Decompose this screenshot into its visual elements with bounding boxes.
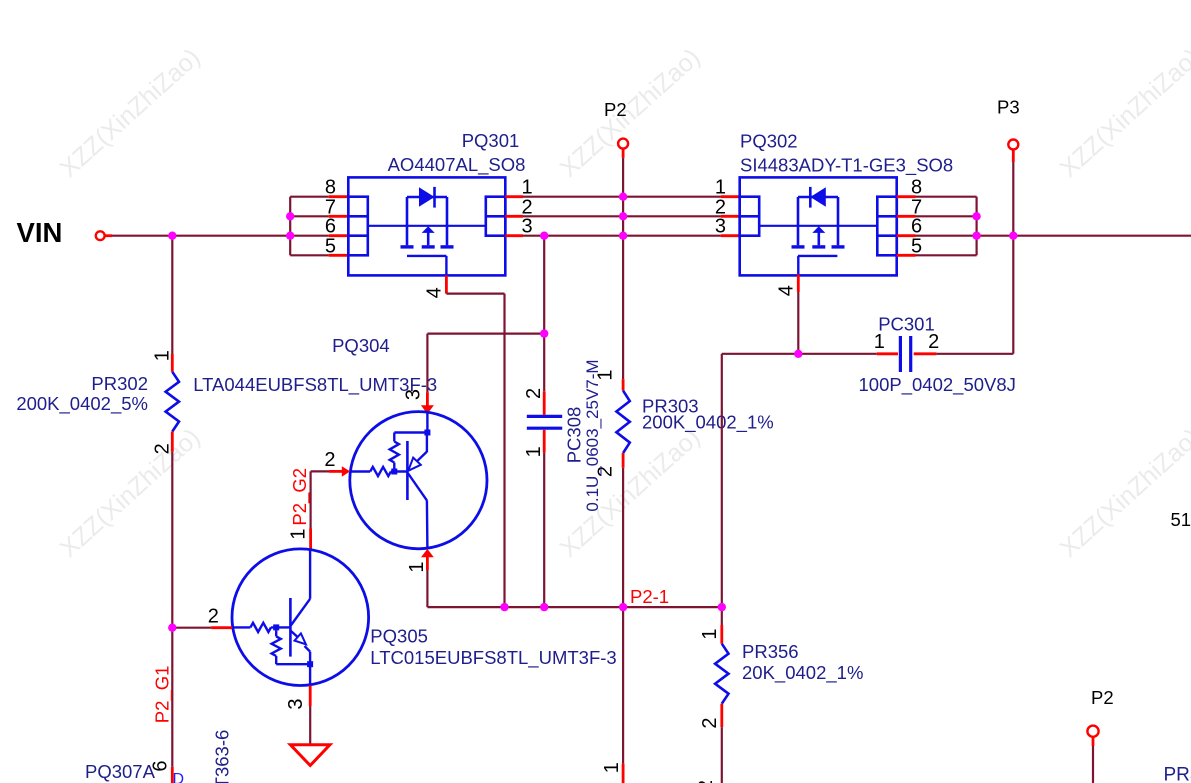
port P2 top (618, 139, 628, 149)
pin stub PQ305 pin3 (309, 686, 312, 707)
svg-text:5: 5 (911, 235, 922, 257)
pin stub PC308 pin2 (543, 391, 546, 415)
wire PQ301 pin2 to PQ302 (523, 215, 721, 217)
wire PQ302 pin4 drop (797, 292, 799, 354)
svg-text:XZZ(XinZhiZao): XZZ(XinZhiZao) (1055, 43, 1191, 183)
svg-text:PC308: PC308 (564, 407, 585, 464)
svg-text:PQ301: PQ301 (462, 130, 520, 151)
resistor PR356 (715, 644, 728, 704)
pin stub PQ302 pin 7 (897, 215, 916, 218)
pin stub PQ302 pin 1 (721, 195, 740, 198)
junction at 290.2,216.3 (286, 212, 294, 220)
svg-text:4: 4 (424, 287, 446, 298)
svg-text:P2_G2: P2_G2 (289, 468, 311, 526)
junction at 290.2,235.7 (286, 232, 294, 240)
svg-text:1: 1 (601, 762, 623, 773)
svg-text:0.1U_0603_25V7-M: 0.1U_0603_25V7-M (583, 359, 602, 511)
svg-text:P3: P3 (997, 96, 1020, 117)
wire rail PC301 right (936, 353, 1013, 355)
svg-text:PR356: PR356 (742, 641, 799, 662)
junction at 623.1,607.1 (619, 603, 627, 611)
pin stub PQ305 pin2 (211, 626, 232, 629)
wire PQ301 pin4 horizontal (446, 293, 504, 295)
junction at 798.3,353.8 (794, 350, 802, 358)
svg-text:20K_0402_1%: 20K_0402_1% (742, 662, 863, 684)
pin stub PC301 pin1 (877, 352, 898, 355)
svg-text:PQ305: PQ305 (370, 626, 428, 647)
transistor PQ301 AO4407AL_SO8 body (348, 177, 505, 275)
svg-text:VIN: VIN (17, 217, 63, 248)
svg-text:P2-1: P2-1 (630, 586, 669, 607)
junction at 623.1,235.7 (619, 232, 627, 240)
junction at 504.5,607.1 (500, 603, 508, 611)
wire P2 bottom drop (1092, 746, 1094, 783)
wire PQ301 pin5 row (290, 254, 329, 256)
pin stub PQ301 pin 6 (329, 234, 349, 237)
pin stub PQ301 pin 8 (329, 195, 349, 198)
svg-text:1: 1 (523, 446, 545, 457)
pin stub PQ302 pin 2 (721, 215, 740, 218)
wire PQ304 pin2 corner horiz (311, 470, 329, 472)
wire rail PC301 left (722, 353, 877, 355)
wire left rail lower (171, 452, 173, 767)
pin stub PQ301 pin 4 (445, 275, 448, 293)
wire P2_G2 vertical (310, 471, 312, 528)
svg-text:2: 2 (928, 331, 939, 353)
svg-text:5: 5 (325, 235, 336, 257)
svg-text:P2: P2 (1091, 687, 1114, 708)
junction at 172.3,235.7 (168, 232, 176, 240)
transistor PQ302 SI4483ADY body (740, 177, 897, 275)
pin stub PQ302 pin 5 (897, 254, 916, 257)
svg-text:1: 1 (288, 528, 310, 539)
wire PQ302 pin7 row (916, 215, 977, 217)
pin stub PR303 pin1 (622, 379, 625, 391)
svg-text:2: 2 (208, 606, 219, 628)
svg-text:PR302: PR302 (91, 373, 148, 394)
pin stub PQ304 pin1 (426, 556, 429, 570)
wire left rail upper (171, 236, 173, 354)
wire PQ301 pin8 row (290, 196, 329, 198)
wire PQ301 pin4 vertical drop (503, 294, 505, 607)
svg-text:AO4407AL_SO8: AO4407AL_SO8 (388, 154, 526, 176)
pin stub PR303 pin2 (622, 453, 625, 468)
pin stub PQ304 pin3 (426, 392, 429, 406)
pin stub VIN port (105, 234, 112, 237)
svg-text:LTA044EUBFS8TL_UMT3F-3: LTA044EUBFS8TL_UMT3F-3 (193, 374, 437, 396)
wire P2 vertical upper (622, 158, 624, 379)
wire PR356 down exit (721, 727, 723, 783)
port VIN (96, 231, 105, 240)
svg-text:200K_0402_5%: 200K_0402_5% (16, 393, 148, 415)
pin stub PQ301 pin 5 (329, 254, 349, 257)
svg-text:1: 1 (152, 350, 174, 361)
wire PQ302 right bracket vertical (975, 197, 977, 256)
junction at 1013.3,235.7 (1009, 232, 1017, 240)
svg-text:PC301: PC301 (878, 313, 935, 334)
wire PQ304 pin1 drop (426, 570, 428, 607)
wire PQ301 pin1 to PQ302 (523, 196, 721, 198)
svg-text:PQ302: PQ302 (740, 131, 798, 152)
arrow into PQ304 pin3 (421, 405, 434, 414)
junction at 623.1,216.3 (619, 212, 627, 220)
pin stub PR302 pin1 (171, 354, 174, 372)
pin stub PQ301 pin 1 (505, 195, 523, 198)
wire PQ301 left bracket vertical (289, 197, 291, 256)
pin stub PQ301 pin 2 (505, 215, 523, 218)
junction at 544.2,333.6 (540, 329, 548, 337)
wire P3 vertical (1012, 162, 1014, 354)
svg-text:3: 3 (285, 698, 307, 709)
pin stub PQ301 pin 3 (505, 234, 523, 237)
pin stub PQ302 pin 6 (897, 234, 916, 237)
pin stub PQ304 pin2 (329, 470, 343, 473)
capacitor PC308 (527, 415, 562, 418)
svg-text:XZZ(XinZhiZao): XZZ(XinZhiZao) (55, 43, 206, 183)
arrow into PQ304 pin2 (342, 466, 350, 477)
svg-text:100P_0402_50V8J: 100P_0402_50V8J (859, 374, 1016, 396)
wire P2-1 down (622, 607, 624, 764)
svg-text:2: 2 (324, 449, 335, 471)
svg-text:200K_0402_1%: 200K_0402_1% (642, 411, 774, 433)
port P3 (1008, 140, 1018, 150)
junction at 976.6,216.3 (972, 212, 980, 220)
svg-text:SI4483ADY-T1-GE3_SO8: SI4483ADY-T1-GE3_SO8 (740, 155, 953, 177)
resistor PR302 (166, 372, 179, 432)
pin stub PR356 pin2 (720, 704, 723, 728)
wire PQ305 pin2 horiz (172, 627, 211, 629)
port P2 bottom (1087, 726, 1098, 737)
svg-text:2: 2 (523, 388, 545, 399)
wire PQ305 pin3 to ground (309, 706, 311, 745)
pin stub PC308 pin1 (543, 430, 546, 453)
pin stub PQ305 pin1 (309, 529, 312, 550)
junction at 544.2,235.7 (540, 232, 548, 240)
junction at 721.8,607.1 (718, 603, 726, 611)
svg-text:D: D (173, 771, 185, 783)
wire PC308 lower drop (543, 452, 545, 607)
svg-text:P2_G1: P2_G1 (152, 666, 174, 724)
svg-text:PQ304: PQ304 (332, 335, 390, 356)
svg-text:4: 4 (776, 285, 798, 296)
svg-text:LTC015EUBFS8TL_UMT3F-3: LTC015EUBFS8TL_UMT3F-3 (370, 647, 616, 669)
svg-text:1: 1 (699, 628, 721, 639)
capacitor PC301 (899, 336, 902, 372)
svg-text:XZZ(XinZhiZao): XZZ(XinZhiZao) (1055, 423, 1191, 563)
pin stub PQ307A pin6 (171, 767, 174, 783)
wire PQ304 pin3 drop (426, 334, 428, 393)
wire P2 vertical lower (622, 468, 624, 607)
wire PQ301 pin3 to PQ302 (523, 235, 721, 237)
svg-text:XZZ(XinZhiZao): XZZ(XinZhiZao) (55, 423, 206, 563)
wire PR356 drop upper (721, 354, 723, 625)
svg-text:PQ307A: PQ307A (85, 761, 156, 782)
svg-text:2: 2 (152, 443, 174, 454)
junction at 544.2,607.1 (540, 603, 548, 611)
junction at 976.6,235.7 (972, 232, 980, 240)
pin stub PQ302 pin 4 (797, 274, 800, 292)
wire PQ301 pin7 row (290, 215, 329, 217)
pin stub P2 bottom port (1092, 737, 1095, 746)
pin stub P3 port (1012, 150, 1015, 162)
ground symbol (290, 745, 330, 766)
wire output bus right (977, 235, 1191, 237)
svg-text:SOT363-6: SOT363-6 (212, 730, 233, 783)
wire rail1 horizontal (427, 333, 544, 335)
svg-text:XZZ(XinZhiZao): XZZ(XinZhiZao) (555, 43, 706, 183)
pin stub PQ302 pin 8 (897, 195, 916, 198)
svg-text:P2: P2 (604, 99, 627, 120)
svg-text:PR356: PR356 (1164, 764, 1191, 783)
pin stub P2 top port (622, 149, 625, 158)
svg-text:1: 1 (406, 561, 428, 572)
svg-text:51: 51 (1171, 509, 1191, 530)
wire PC308 drop from bus (543, 236, 545, 392)
svg-text:3: 3 (715, 216, 726, 238)
wire VIN bus (112, 235, 329, 237)
arrow into PQ304 pin1 (421, 549, 434, 557)
pin stub PC301 pin2 (914, 352, 937, 355)
wire PQ302 pin6 row (916, 235, 977, 237)
pin stub PR356 pin1 (720, 625, 723, 644)
wire PQ302 pin8 row (916, 196, 977, 198)
svg-text:3: 3 (522, 216, 533, 238)
transistor PQ304 LTA044EUBFS8TL body (350, 412, 487, 549)
wire rail3 P2-1 (427, 606, 721, 608)
junction at 623.1,196.7 (619, 193, 627, 201)
svg-text:2: 2 (699, 717, 721, 728)
pin stub PQ301 pin 7 (329, 215, 349, 218)
pin stub bottom exit pin1 (622, 764, 625, 783)
pin stub PR302 pin2 (171, 432, 174, 452)
wire PQ302 pin5 row (916, 254, 977, 256)
transistor PQ305 LTC015EUBFS8TL body (232, 549, 369, 686)
resistor PR303 (616, 391, 629, 453)
pin stub PQ302 pin 3 (721, 234, 740, 237)
junction at 172.3,627.7 (168, 624, 176, 632)
